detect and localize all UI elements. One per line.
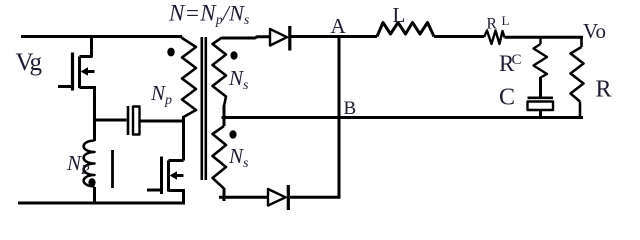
wire bottom input rail Vg- [18, 202, 185, 205]
wire RL to output node [505, 36, 584, 39]
svg-text:C: C [512, 52, 522, 68]
inductor L [377, 23, 434, 37]
diode D1 [270, 26, 290, 51]
transformer secondary winding Ns lower [213, 126, 227, 189]
polarity dot primary Np [167, 48, 174, 57]
svg-text:R: R [596, 77, 612, 103]
transformer primary winding Np [182, 37, 196, 118]
wire node M to capacitor [95, 119, 127, 122]
capacitor C [528, 98, 554, 110]
resistor R branch from output node [571, 37, 584, 118]
transistor Q2 [147, 157, 185, 204]
svg-text:g: g [30, 49, 43, 76]
wire winding Np2 to bottom rail [93, 187, 96, 203]
svg-text:R: R [487, 16, 498, 33]
svg-text:B: B [344, 98, 357, 119]
wire RC to capacitor C [539, 77, 542, 97]
svg-text:Ns: Ns [228, 144, 249, 171]
svg-text:Vo: Vo [583, 19, 606, 43]
wire node M down to winding Np2 [93, 120, 96, 141]
transistor Q1 [58, 37, 96, 91]
svg-text:Ns: Ns [228, 66, 249, 93]
resistor RL [484, 31, 505, 45]
capacitor Cb (dc blocking) [128, 106, 140, 135]
diode D2 [268, 185, 288, 210]
wire secondary bottom stub [223, 188, 226, 201]
wire top input rail Vg+ [21, 35, 182, 38]
svg-text:C: C [499, 85, 515, 111]
wire lower secondary to diode D2 [219, 196, 267, 199]
wire D1 to node A and inductor [291, 35, 377, 38]
wire primary bottom to Q2 drain (node Y) [182, 116, 185, 161]
wire C to B rail [539, 110, 542, 118]
wire secondary center tap [223, 105, 226, 126]
core bar of winding Np2 [111, 150, 114, 188]
polarity dot winding Np2 [88, 178, 95, 186]
wire capacitor to node Y [140, 120, 184, 123]
svg-text:N=Np/Ns: N=Np/Ns [168, 1, 249, 28]
svg-text:Np: Np [150, 81, 172, 108]
wire node A down to D2 output [338, 37, 341, 198]
svg-text:L: L [502, 13, 510, 28]
wire upper secondary to diode D1 [222, 37, 269, 38]
wire D2 to node A vertical [290, 196, 341, 199]
transformer core [202, 37, 206, 180]
resistor RC (capacitor esr) [534, 37, 548, 78]
winding Np2 (second primary half) [84, 141, 95, 187]
polarity dot Ns lower [229, 130, 236, 138]
svg-text:L: L [393, 3, 406, 27]
transformer secondary winding Ns upper [213, 38, 227, 107]
wire L to RL [434, 35, 484, 38]
svg-text:A: A [331, 14, 347, 38]
polarity dot Ns upper [230, 51, 237, 59]
wire Q1 source to node M [93, 86, 96, 120]
wire node B rail [222, 116, 584, 119]
